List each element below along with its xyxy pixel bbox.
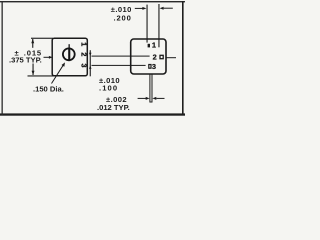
right arrow of .200 dim [160, 7, 173, 10]
vertical dimension line (.100 dim) with outside arrows [89, 50, 92, 76]
svg-text:.150 Dia.: .150 Dia. [33, 84, 64, 93]
svg-text:2: 2 [80, 52, 89, 56]
border frame top [0, 1, 185, 2]
svg-text:.100: .100 [99, 83, 118, 92]
paper background [0, 0, 185, 117]
svg-text:.375 TYP.: .375 TYP. [9, 55, 42, 64]
pin 3 pad (side view) [149, 65, 151, 69]
left arrow of .200 dim [135, 7, 147, 10]
right arrow of .012 dim [152, 97, 164, 100]
adjustment screw circle [63, 48, 75, 60]
pin 2 stub right of side view [167, 57, 177, 58]
pin 2 pad (side view) [160, 55, 163, 58]
svg-text:1: 1 [80, 42, 89, 46]
svg-text:.012 TYP.: .012 TYP. [97, 103, 130, 112]
left arrow of .012 dim [138, 97, 150, 100]
svg-text:2: 2 [153, 53, 157, 62]
extension line right (.200 dim) [158, 4, 159, 47]
lead (side view, going down) [150, 74, 152, 102]
side view body outline [131, 39, 166, 74]
svg-text:1: 1 [152, 41, 156, 50]
pin 2 row extension line (left, .100 dim upper) [92, 56, 150, 57]
svg-text:.200: .200 [114, 13, 132, 22]
pin 1 pad (side view) [148, 44, 150, 48]
dimension line upper segment with up arrow (.375 dim) [31, 39, 34, 48]
leader dash from .375 TYP. to body edge [44, 57, 50, 58]
pin 3 row extension line (left, .100 dim lower) [92, 65, 146, 66]
dimension line lower segment with down arrow (.375 dim) [32, 64, 35, 76]
border frame left [2, 1, 3, 115]
svg-text:3: 3 [80, 64, 89, 68]
screw slot centerline tick [69, 44, 70, 48]
svg-text:3: 3 [152, 62, 156, 71]
leader line for .150 Dia. [52, 62, 66, 83]
top view body outline [52, 38, 87, 76]
extension line bottom (.375 dim) [28, 75, 55, 76]
extension line left (.200 dim) [147, 5, 148, 43]
border frame right [182, 1, 184, 115]
screw slot [68, 48, 70, 62]
extension line top (.375 dim) [31, 38, 53, 39]
border frame bottom [0, 113, 185, 115]
